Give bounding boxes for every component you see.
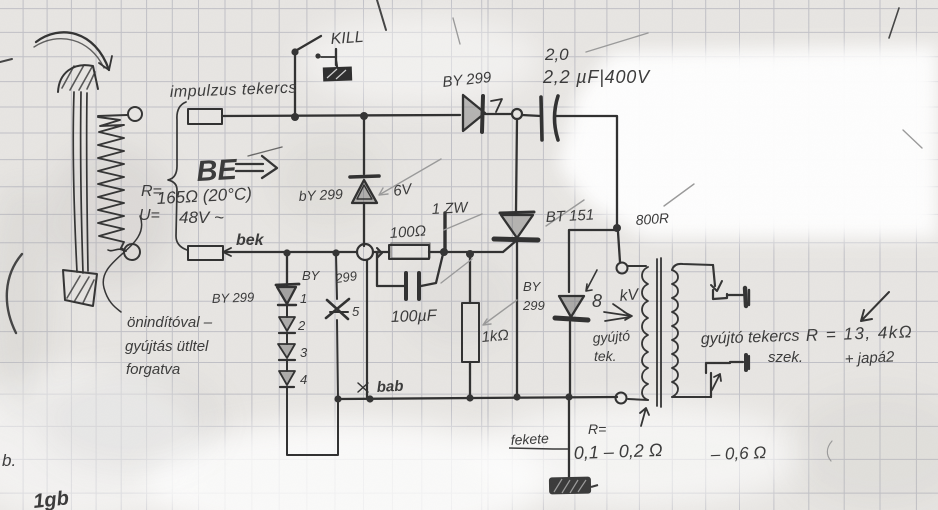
svg-text:bY 299: bY 299	[298, 186, 343, 204]
svg-text:2,0: 2,0	[544, 45, 569, 64]
svg-text:KILL: KILL	[330, 29, 364, 48]
svg-text:8: 8	[592, 291, 602, 311]
svg-text:R=: R=	[588, 421, 606, 437]
svg-text:299: 299	[333, 268, 358, 286]
svg-text:b.: b.	[2, 451, 16, 470]
svg-text:800R: 800R	[635, 210, 670, 228]
svg-text:BT 151: BT 151	[545, 206, 594, 226]
svg-text:U=: U=	[139, 207, 160, 224]
svg-text:kV: kV	[619, 286, 640, 305]
svg-text:4: 4	[300, 372, 307, 387]
svg-text:1gb: 1gb	[32, 487, 70, 510]
svg-text:szek.: szek.	[768, 349, 803, 366]
svg-text:gyújtó: gyújtó	[592, 327, 631, 346]
svg-text:bek: bek	[236, 232, 265, 249]
svg-text:gyújtó tekercs: gyújtó tekercs	[701, 328, 800, 348]
svg-text:BE: BE	[196, 154, 240, 188]
svg-text:299: 299	[522, 298, 545, 313]
svg-text:48V ~: 48V ~	[179, 208, 224, 227]
svg-text:5: 5	[352, 304, 360, 319]
svg-text:– 0,6 Ω: – 0,6 Ω	[709, 443, 766, 464]
svg-text:BY 299: BY 299	[212, 290, 255, 306]
svg-text:BY: BY	[302, 268, 321, 283]
svg-text:100Ω: 100Ω	[389, 222, 427, 242]
svg-text:2: 2	[297, 318, 306, 333]
svg-text:fekete: fekete	[510, 430, 549, 448]
svg-text:tek.: tek.	[594, 348, 617, 364]
svg-text:gyújtás ütltel: gyújtás ütltel	[125, 338, 209, 355]
svg-text:+ japá2: + japá2	[844, 348, 895, 368]
svg-text:bab: bab	[376, 378, 404, 396]
svg-text:1: 1	[300, 291, 307, 306]
svg-text:BY: BY	[523, 279, 542, 294]
svg-text:forgatva: forgatva	[126, 361, 180, 378]
svg-text:1kΩ: 1kΩ	[481, 327, 510, 346]
svg-text:önindítóval –: önindítóval –	[127, 314, 213, 331]
svg-text:3: 3	[300, 345, 308, 360]
svg-text:R = 13, 4kΩ: R = 13, 4kΩ	[805, 322, 913, 345]
svg-text:2,2 µF|400V: 2,2 µF|400V	[542, 67, 651, 87]
svg-text:100µF: 100µF	[391, 307, 438, 326]
svg-text:1 ZW: 1 ZW	[431, 199, 470, 218]
svg-text:0,1 – 0,2 Ω: 0,1 – 0,2 Ω	[573, 440, 663, 463]
